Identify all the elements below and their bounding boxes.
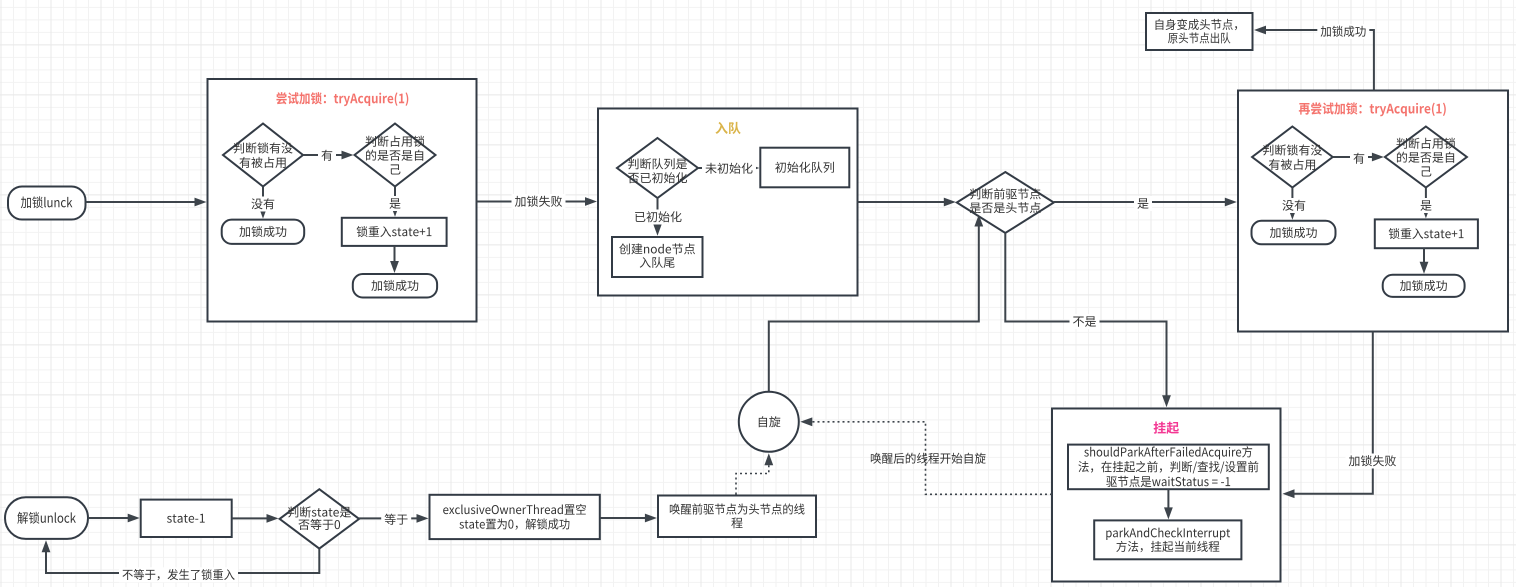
decision 判断锁有没有被占用 <box>223 124 303 187</box>
title 入队 <box>715 122 740 134</box>
wire shouldPark -> parkAndCheckInterrupt <box>1167 489 1169 511</box>
wire 判断锁2 -> 判断占用锁2 label 有 <box>1333 156 1376 158</box>
wire 再尝试加锁 box up 加锁成功 -> 自身变成头节点 <box>1262 30 1374 91</box>
decision 判断锁有没有被占用 2 <box>1252 127 1333 188</box>
node shouldParkAfterFailedAcquire <box>1068 445 1269 490</box>
node 初始化队列 <box>760 148 849 188</box>
node 解锁unlock start <box>5 497 88 539</box>
wire 判断队列 -> 初始化队列 label 未初始化 <box>698 167 751 169</box>
node state-1 <box>141 500 232 537</box>
node 锁重入state+1 2 <box>1375 219 1478 248</box>
node 自旋 circle <box>739 392 799 452</box>
node 加锁lunck start <box>8 187 86 220</box>
wire 入队 box -> 判断前驱节点 decision <box>858 201 948 203</box>
decision 判断前驱节点是否是头节点 <box>957 172 1054 233</box>
title 挂起 <box>1154 422 1179 434</box>
decision 判断state是否等于0 <box>280 489 360 548</box>
node 锁重入state+1 1 <box>342 218 447 246</box>
node 加锁成功 2 <box>353 274 437 298</box>
node 加锁成功 3 <box>1252 221 1336 245</box>
container 入队 <box>598 109 858 296</box>
container 挂起 <box>1052 409 1281 582</box>
wire 判断队列 down 已初始化 -> 创建node节点 <box>657 198 659 228</box>
wire 判断state -> exclusiveOwnerThread label 等于 <box>359 517 421 519</box>
container 尝试加锁 tryAcquire(1) <box>208 79 477 322</box>
decision 判断占用锁的是否是自己 2 <box>1385 127 1467 188</box>
wire 加锁lunck -> 尝试加锁 box <box>86 201 199 203</box>
wire 判断锁 down 没有 -> 加锁成功 <box>262 187 264 211</box>
wire 自旋 -> 判断前驱节点 <box>769 223 979 392</box>
wire 判断前驱节点 down 不是 -> 挂起 box <box>1005 233 1166 399</box>
wire 锁重入2 -> 加锁成功 4 <box>1423 248 1425 266</box>
decision 判断队列是否已初始化 <box>617 138 698 198</box>
node 唤醒前驱节点为头节点的线程 <box>658 496 816 538</box>
wire 判断锁2 down 没有 -> 加锁成功 3 <box>1291 188 1293 212</box>
node 自身变成头节点 原头节点出队 <box>1146 13 1253 50</box>
node 加锁成功 4 <box>1383 275 1465 297</box>
title 尝试加锁：tryAcquire(1) <box>276 92 408 106</box>
decision 判断占用锁的是否是自己 <box>355 124 436 187</box>
wire 判断占用锁2 down 是 -> 锁重入 2 <box>1425 188 1427 211</box>
wire 判断锁 -> 判断占用锁 label 有 <box>303 154 346 156</box>
node 创建node节点入队尾 <box>612 237 703 277</box>
dotted wire 挂起 -> 自旋 label 唤醒后的线程开始自旋 <box>808 422 1052 495</box>
wire 锁重入 -> 加锁成功 2 <box>394 246 396 265</box>
wire 判断前驱节点 -> 再尝试加锁 box label 是 <box>1054 201 1229 203</box>
wire 尝试加锁 box -> 入队 box label 加锁失败 <box>477 201 590 203</box>
wire 再尝试加锁 box down 加锁失败 -> 挂起 box <box>1291 332 1373 494</box>
node 加锁成功 1 <box>222 220 305 244</box>
title 再尝试加锁：tryAcquire(1) <box>1299 102 1446 116</box>
container 再尝试加锁 tryAcquire(1) <box>1238 91 1508 332</box>
node parkAndCheckInterrupt <box>1094 520 1241 559</box>
wire 解锁unlock -> state-1 <box>88 517 132 519</box>
node exclusiveOwnerThread置空 <box>430 495 600 539</box>
wire exclusiveOwnerThread -> 唤醒前驱节点线程 <box>600 517 649 519</box>
dotted wire 唤醒前驱节点线程 -> 自旋 <box>736 461 769 494</box>
wire 判断state down 不等于 -> 解锁unlock <box>46 548 319 573</box>
wire state-1 -> 判断state <box>232 517 271 519</box>
wire 判断占用锁 down 是 -> 锁重入 <box>394 187 396 209</box>
